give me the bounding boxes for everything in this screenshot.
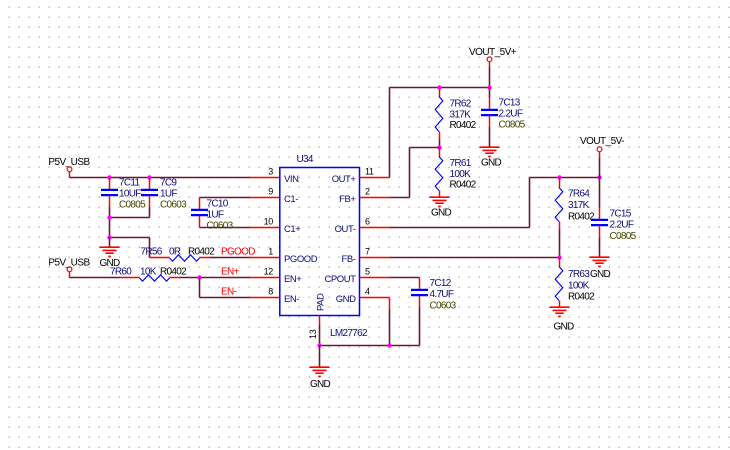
svg-text:0R: 0R [169,247,181,258]
svg-text:CPOUT: CPOUT [324,274,356,285]
svg-text:C0603: C0603 [207,221,234,232]
junction at 559,257 [557,255,561,259]
svg-text:VOUT_5V-: VOUT_5V- [580,136,624,147]
svg-text:GND: GND [336,294,356,305]
svg-text:GND: GND [431,208,452,219]
wire OUT+ riser [389,88,391,178]
junction at 439,147 [437,145,441,149]
wire FB- [390,257,560,259]
net label EN- [221,287,236,298]
svg-text:1UF: 1UF [160,189,177,200]
wire below C9 [149,208,151,218]
resistor R61 [435,148,476,198]
svg-text:GND: GND [310,379,331,390]
wire R64 to FB- [559,238,561,258]
svg-text:7C10: 7C10 [207,199,229,210]
svg-text:100K: 100K [568,281,590,292]
svg-text:PGOOD: PGOOD [221,247,255,258]
pin 1 PGOOD [250,247,318,266]
junction at C9 top [147,175,151,179]
wire C10 bottom (pin 10) [200,227,250,229]
designator U34 [297,154,314,165]
ground under C15 [590,238,611,281]
junction at 489,87 [487,85,491,89]
svg-text:FB-: FB- [342,254,356,265]
svg-text:C0603: C0603 [160,200,187,211]
net label EN+ [221,267,239,278]
wire to R56 column [110,237,150,239]
resistor R63 [555,258,595,308]
ground under U34 [310,346,331,391]
resistor R64 [555,178,595,238]
svg-text:7C12: 7C12 [430,278,452,289]
wire C12 bottom [320,308,420,346]
pin 4 GND [336,287,390,306]
svg-text:2: 2 [365,187,370,197]
svg-text:7C9: 7C9 [160,178,177,189]
svg-text:5: 5 [365,267,370,277]
svg-text:VOUT_5V+: VOUT_5V+ [469,47,517,58]
svg-text:7: 7 [365,247,370,257]
svg-text:1UF: 1UF [207,210,224,221]
junction at 109,237 [107,235,111,239]
svg-text:GND: GND [481,158,502,169]
junction at 559,177 [557,175,561,179]
pin 2 FB+ [339,187,389,206]
power port P5V_USB (top) [48,157,90,178]
wire pin 4 to GND rail [389,298,391,346]
junction EN at 199,277 [197,275,201,279]
resistor R56 [141,247,216,262]
pin 7 FB- [342,247,390,266]
wire OUT- [390,178,600,228]
svg-text:317K: 317K [568,200,590,211]
capacitor C13 [481,88,526,131]
svg-text:GND: GND [590,269,611,280]
comment LM27762 [330,328,368,339]
pin 11 OUT+ [332,167,390,186]
svg-text:PAD: PAD [315,293,326,311]
svg-text:EN-: EN- [284,294,299,305]
svg-text:1: 1 [268,247,273,257]
wire P5V_USB to pin 3 [70,177,250,179]
svg-text:3: 3 [268,167,273,177]
pin 13 PAD [308,293,326,339]
capacitor C12 [411,278,457,312]
svg-text:R0402: R0402 [188,247,215,258]
wire R56 to pin 1 [210,257,250,259]
pin 8 EN- [250,287,300,306]
pin 5 CPOUT [324,267,389,286]
svg-text:7R61: 7R61 [450,158,472,169]
svg-text:OUT-: OUT- [335,224,356,235]
pin 3 VIN [250,167,300,186]
wire down to EN- [200,278,250,298]
wire VOUT_5V+ stem [489,68,491,88]
wire pin 13 to GND rail [319,326,321,346]
svg-text:2.2UF: 2.2UF [610,220,634,231]
svg-text:7R63: 7R63 [568,269,590,280]
capacitor C11 [101,178,146,211]
svg-text:EN+: EN+ [221,267,239,278]
svg-text:R0402: R0402 [450,120,477,131]
svg-text:C1+: C1+ [284,224,301,235]
ground under C13 [480,128,502,169]
svg-text:PGOOD: PGOOD [284,254,318,265]
wire R60 to pin 12 [180,277,250,279]
svg-text:13: 13 [308,329,318,339]
svg-text:R0402: R0402 [450,180,477,191]
svg-text:7R60: 7R60 [110,267,132,278]
svg-text:8: 8 [268,287,273,297]
resistor R60 [110,267,187,282]
wire below C11 [109,208,111,238]
junction at 319,345 [317,343,321,347]
svg-text:EN-: EN- [221,287,236,298]
pin 12 EN+ [250,267,303,286]
pin 9 C1- [250,187,299,206]
op-amp U1 / IC U34 body [280,168,360,316]
pin 10 C1+ [250,217,302,236]
resistor R62 [435,88,476,148]
svg-text:317K: 317K [450,110,472,121]
wire down to R56 [149,238,151,258]
svg-text:10K: 10K [140,267,157,278]
svg-text:7R64: 7R64 [568,189,590,200]
ground under C11 [99,238,120,270]
svg-text:7R62: 7R62 [450,99,472,110]
power port VOUT_5V- [580,136,624,158]
pin 6 OUT- [335,217,390,236]
svg-text:C0805: C0805 [499,120,526,131]
svg-text:EN+: EN+ [284,274,302,285]
svg-text:10: 10 [264,217,274,227]
capacitor C9 [141,178,187,211]
wire CPOUT to C12 [390,277,420,279]
svg-text:100K: 100K [450,169,472,180]
svg-text:GND: GND [553,322,574,333]
svg-text:OUT+: OUT+ [332,174,357,185]
svg-text:11: 11 [365,167,374,177]
svg-text:10UF: 10UF [119,189,141,200]
svg-text:9: 9 [268,187,273,197]
svg-text:C1-: C1- [284,194,298,205]
svg-text:7R56: 7R56 [141,247,163,258]
wire C10 top (pin 9) [200,197,250,199]
svg-text:7C15: 7C15 [610,209,632,220]
svg-text:VIN: VIN [284,174,299,185]
svg-text:7C11: 7C11 [119,178,141,189]
capacitor C10 [191,198,234,232]
svg-text:FB+: FB+ [339,194,356,205]
wire top rail [390,87,490,89]
ground under R63 [550,307,575,332]
wire FB+ [390,148,440,198]
junction at 599,177 [597,175,601,179]
svg-text:R0402: R0402 [568,292,595,303]
net label PGOOD [221,247,255,258]
svg-text:2.2UF: 2.2UF [499,109,523,120]
svg-text:6: 6 [365,217,370,227]
svg-text:12: 12 [264,267,274,277]
svg-text:7C13: 7C13 [499,98,521,109]
wire P5V_USB to R60 [70,277,120,279]
svg-text:4.7UF: 4.7UF [430,289,454,300]
junction at 109,217 [107,215,111,219]
power port P5V_USB (bottom) [48,258,90,278]
svg-text:U34: U34 [297,154,314,165]
svg-text:C0805: C0805 [610,231,637,242]
junction at 439,87 [437,85,441,89]
junction at C11 top [107,175,111,179]
wire VOUT_5V- stem [599,158,601,178]
svg-text:LM27762: LM27762 [330,328,368,339]
svg-text:R0402: R0402 [160,267,187,278]
svg-text:4: 4 [365,287,370,297]
wire C9 bottom to C11 column [110,217,150,219]
capacitor C15 [591,178,637,243]
ground under R61 [430,197,452,218]
junction at 389,345 [387,343,391,347]
svg-text:C0805: C0805 [119,200,146,211]
svg-text:C0603: C0603 [430,301,457,312]
power port VOUT_5V+ [469,47,517,68]
